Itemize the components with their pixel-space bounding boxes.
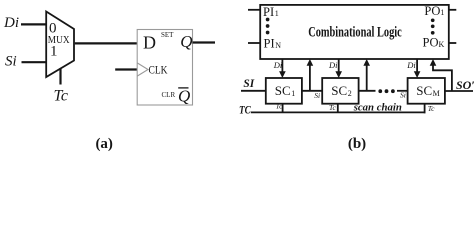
svg-text:Tc: Tc bbox=[276, 102, 283, 111]
svg-text:Si: Si bbox=[5, 54, 17, 70]
scan cell SC1 box bbox=[266, 78, 302, 104]
SCM clock stub bbox=[424, 104, 426, 114]
SC2 clock stub bbox=[337, 104, 339, 113]
output PO_1 stub bbox=[449, 9, 457, 11]
wire SCM to SO' bbox=[445, 90, 473, 92]
multiplexer MUX body bbox=[46, 12, 74, 78]
wire Si input to MUX bbox=[22, 61, 48, 63]
svg-text:SI: SI bbox=[243, 76, 255, 90]
input PI_N stub bbox=[248, 42, 260, 44]
serial wire dots to SCM bbox=[397, 90, 408, 92]
input PI_1 stub bbox=[248, 9, 260, 11]
SC2 output up arrow to comb bbox=[363, 59, 370, 91]
wire MUX output to D input bbox=[75, 42, 138, 44]
scan cell SCM box bbox=[408, 78, 445, 104]
wire SI to SC1 bbox=[241, 90, 266, 92]
PO vertical dots bbox=[431, 18, 435, 34]
svg-text:CLR: CLR bbox=[162, 91, 176, 99]
svg-text:Tc: Tc bbox=[54, 88, 69, 105]
svg-text:Si: Si bbox=[314, 91, 320, 100]
svg-text:D: D bbox=[143, 33, 156, 53]
output PO_K stub bbox=[449, 42, 457, 44]
wire CLK input stub bbox=[115, 68, 137, 70]
down arrow comb to SC1 bbox=[279, 59, 286, 78]
svg-text:Tc: Tc bbox=[329, 103, 336, 112]
svg-text:Q: Q bbox=[180, 32, 192, 51]
svg-text:(a): (a) bbox=[95, 136, 113, 152]
svg-text:Di: Di bbox=[406, 60, 416, 70]
scan cell SC2 box bbox=[322, 78, 358, 104]
down arrow comb to SCM bbox=[414, 59, 421, 78]
svg-text:Tc: Tc bbox=[428, 104, 435, 113]
svg-text:TC: TC bbox=[239, 102, 252, 116]
svg-text:CLK: CLK bbox=[149, 63, 168, 77]
flip-flop CLK triangle bbox=[137, 63, 148, 76]
svg-text:1: 1 bbox=[50, 44, 58, 60]
svg-text:Combinational Logic: Combinational Logic bbox=[308, 25, 402, 41]
svg-text:scan chain: scan chain bbox=[353, 102, 402, 114]
svg-text:Q: Q bbox=[178, 87, 190, 106]
SO branch vertical from output wire bbox=[433, 64, 452, 91]
svg-text:SET: SET bbox=[161, 31, 174, 39]
SC1 clock stub bbox=[282, 104, 284, 113]
svg-text:(b): (b) bbox=[348, 136, 366, 152]
TC clock wire bbox=[251, 111, 426, 113]
svg-text:Si: Si bbox=[400, 91, 406, 100]
SO branch up arrowhead into comb bbox=[430, 59, 437, 66]
D flip-flop U1 box bbox=[137, 30, 192, 106]
scan chain ellipsis dots bbox=[378, 89, 394, 93]
svg-text:Di: Di bbox=[328, 60, 338, 70]
down arrow comb to SC2 bbox=[335, 59, 342, 78]
PI vertical dots bbox=[266, 18, 270, 35]
wire Tc select stub bbox=[59, 68, 61, 85]
wire Di input to MUX bbox=[21, 23, 47, 25]
flip-flop Q-bar overline bbox=[178, 87, 188, 89]
serial wire SC2 to dots bbox=[359, 90, 376, 92]
svg-text:SO′: SO′ bbox=[456, 78, 474, 92]
serial wire SC1 to SC2 bbox=[302, 90, 322, 92]
svg-text:Di: Di bbox=[3, 15, 19, 31]
wire Q output bbox=[193, 41, 216, 43]
combinational logic box bbox=[260, 5, 449, 59]
SC1 output up arrow to comb bbox=[307, 59, 314, 91]
svg-text:Di: Di bbox=[273, 60, 283, 70]
